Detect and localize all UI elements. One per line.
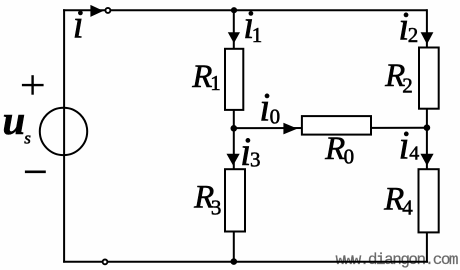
label i4 [399,123,420,168]
resistor R1 body [225,49,243,110]
svg-text:3: 3 [250,148,261,172]
label R2 [384,58,413,98]
svg-text:i: i [399,123,410,168]
polarity plus sign [22,75,44,95]
svg-text:1: 1 [210,71,221,95]
label i1 [243,2,262,47]
svg-text:R: R [324,131,345,167]
resistor R4 body [419,169,439,232]
wire bridge horizontal [234,127,427,129]
label i2 [398,3,418,48]
label R0 [324,131,354,169]
svg-text:s: s [24,129,31,148]
current arrow i0 [283,123,297,135]
wire right vertical [426,9,428,262]
label R1 [191,59,221,95]
wire left vertical [63,9,65,262]
label R4 [383,182,413,220]
node B middle-right junction dot [424,124,431,131]
node A middle-left junction dot [231,125,238,132]
svg-text:2: 2 [402,74,413,98]
svg-text:4: 4 [409,142,419,164]
current arrow i3 [227,154,240,166]
label i [73,1,84,46]
svg-text:u: u [3,97,26,143]
label us source voltage [3,97,32,148]
svg-text:3: 3 [211,195,222,219]
wire middle branch vertical [233,9,235,262]
node bottom junction dot [231,258,238,265]
svg-text:www.diangon.com: www.diangon.com [336,251,458,269]
current arrow i2 [421,32,434,44]
watermark www.diangon.com [336,251,458,269]
current arrow i [90,5,103,17]
label i3 [240,129,260,174]
label R3 [193,179,221,219]
svg-text:0: 0 [270,104,281,128]
svg-text:R: R [191,59,212,95]
resistor R0 body [302,116,371,135]
source U1 voltage circle [40,108,87,155]
label i0 [259,85,280,130]
svg-text:R: R [383,182,404,218]
terminal bottom open circle [103,260,108,265]
current arrow i1 [228,32,240,43]
terminal top open circle [105,8,110,13]
svg-text:i: i [73,1,84,46]
wire top horizontal [63,9,428,11]
svg-text:1: 1 [252,23,262,47]
svg-text:4: 4 [402,196,413,220]
svg-text:0: 0 [344,145,355,169]
current arrow i4 [420,154,433,166]
wire bottom horizontal [63,261,428,263]
polarity minus sign [25,171,46,174]
svg-text:2: 2 [408,23,419,47]
resistor R2 body [419,48,439,109]
resistor R3 body [225,169,245,231]
node top junction dot [231,7,237,13]
